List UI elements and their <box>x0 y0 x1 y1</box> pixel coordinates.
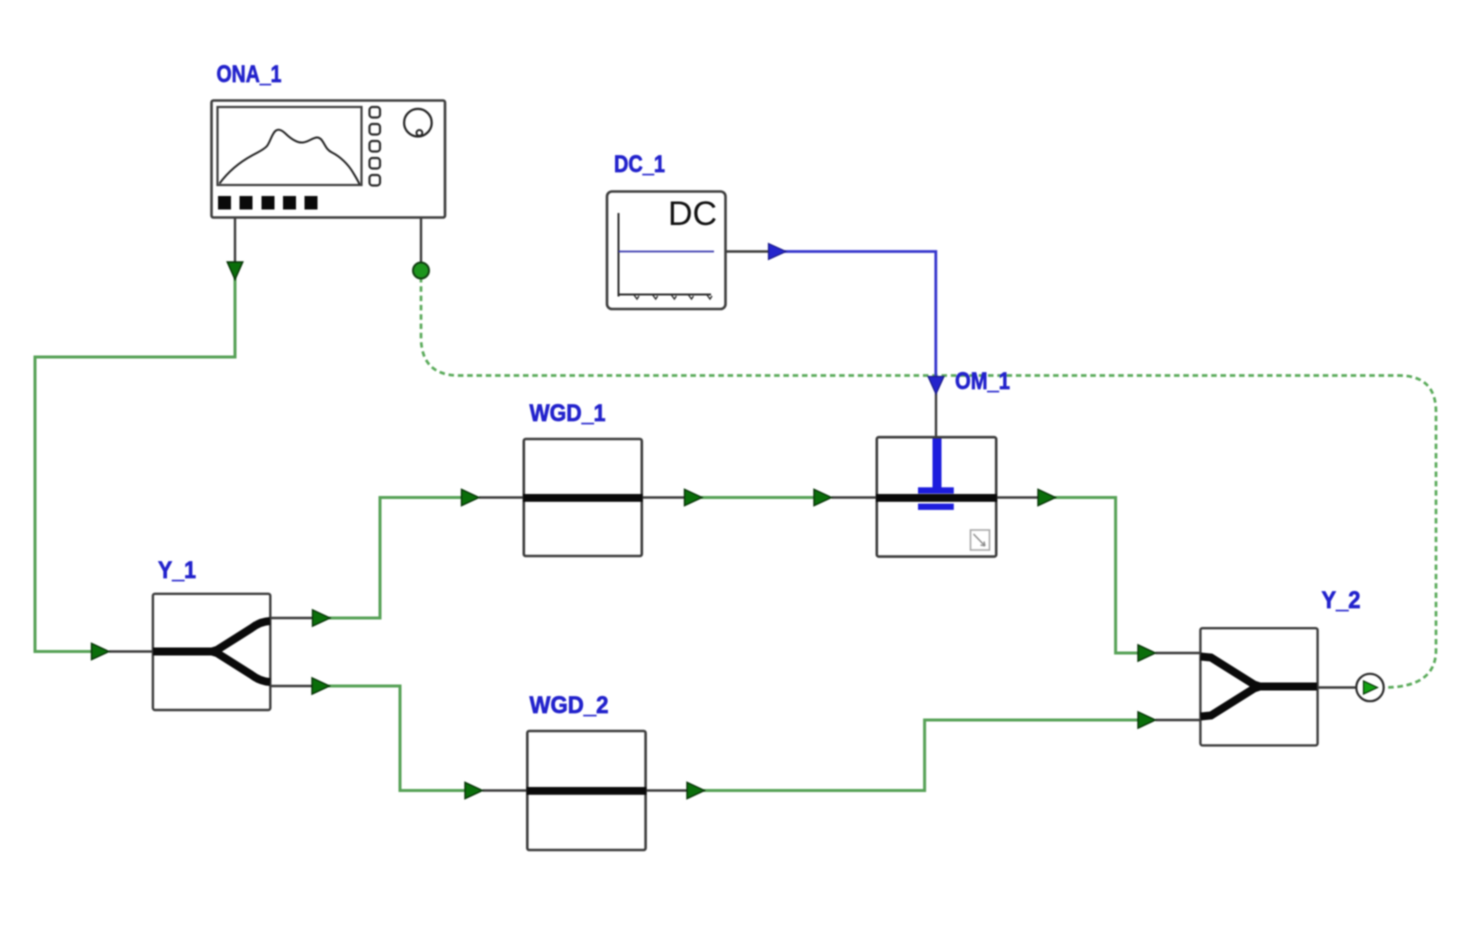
svg-text:DC_1: DC_1 <box>614 151 665 178</box>
svg-text:DC: DC <box>668 195 717 233</box>
svg-text:WGD_2: WGD_2 <box>530 692 609 719</box>
svg-text:Y_1: Y_1 <box>158 557 196 584</box>
svg-text:ONA_1: ONA_1 <box>217 61 282 88</box>
svg-text:WGD_1: WGD_1 <box>530 400 606 427</box>
svg-text:OM_1: OM_1 <box>955 368 1010 395</box>
svg-text:Y_2: Y_2 <box>1322 587 1361 614</box>
